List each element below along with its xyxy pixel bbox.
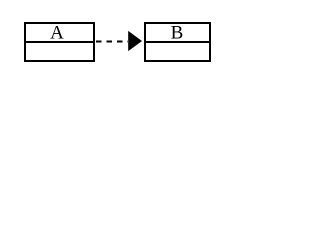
box B divider	[144, 41, 211, 43]
dashed dependency wire A to B	[96, 41, 128, 43]
svg-text:A: A	[50, 23, 64, 44]
arrowhead	[128, 31, 142, 51]
svg-text:B: B	[171, 23, 184, 44]
box A divider	[24, 41, 95, 43]
box B	[145, 23, 210, 61]
box A	[25, 23, 94, 61]
